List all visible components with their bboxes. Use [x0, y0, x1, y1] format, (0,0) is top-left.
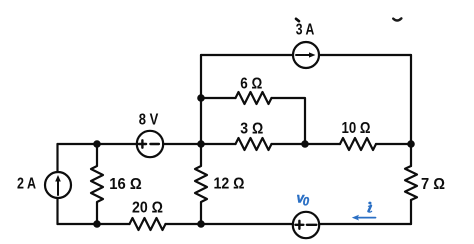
resistor 10 ohm: [340, 138, 376, 150]
voltage source v0 plus sign: [295, 221, 303, 229]
voltage source 8V minus sign: [150, 143, 159, 145]
wire left branch lower: [56, 198, 58, 224]
wire 6-ohm branch left lead: [201, 97, 236, 99]
svg-text:7 Ω: 7 Ω: [421, 176, 445, 193]
current source 3A circle: [293, 42, 319, 68]
wire bottom rail middle segment: [166, 223, 293, 225]
resistor 16 ohm (with leads): [91, 144, 103, 224]
svg-text:0: 0: [303, 197, 310, 209]
junction dot (305,144): [301, 140, 309, 148]
svg-text:6 Ω: 6 Ω: [240, 76, 262, 93]
resistor 6 ohm: [236, 92, 272, 104]
resistor 7 ohm: [405, 166, 417, 200]
wire mid horizontal left segment: [58, 143, 138, 145]
resistor 20 ohm: [130, 218, 166, 230]
wire right rail lower: [410, 200, 412, 224]
junction dot at 6-ohm tap (201,98): [197, 94, 205, 102]
wire middle vertical upper (node at x=201): [200, 55, 202, 144]
junction dot (97,224): [93, 220, 101, 228]
wire right rail upper: [410, 55, 412, 166]
current source 3A arrow: [296, 54, 310, 56]
resistor 12 ohm (with leads): [195, 144, 207, 224]
voltage source v0 minus sign: [307, 224, 317, 226]
svg-text:16 Ω: 16 Ω: [109, 176, 142, 193]
label i (blue): [368, 202, 371, 213]
junction dot (201,224): [197, 220, 205, 228]
wire mid horizontal 10ohm-to-right segment: [376, 143, 411, 145]
svg-text:2 A: 2 A: [17, 176, 36, 193]
stray grave accent mark above 3 A: [296, 19, 299, 21]
svg-text:3 A: 3 A: [296, 22, 315, 39]
stray breve mark top right: [393, 18, 401, 20]
wire 6-ohm branch right lead and drop: [272, 98, 306, 144]
svg-text:10 Ω: 10 Ω: [342, 120, 371, 137]
svg-text:12 Ω: 12 Ω: [214, 176, 245, 193]
svg-text:3 Ω: 3 Ω: [240, 121, 263, 138]
wire bottom rail 20-ohm left lead: [58, 223, 130, 225]
voltage source 8V plus sign: [139, 140, 146, 147]
wire top rail right segment: [319, 54, 411, 56]
svg-text:20 Ω: 20 Ω: [132, 200, 163, 217]
wire mid horizontal 8V-to-3ohm segment: [163, 143, 236, 145]
junction dot (201,144): [197, 140, 205, 148]
wire bottom rail right segment: [319, 223, 411, 225]
resistor 3 ohm: [236, 138, 272, 150]
junction dot (411,144): [407, 140, 415, 148]
junction dot (97,144): [93, 140, 101, 148]
voltage source 8V circle: [137, 131, 163, 157]
current source 2A arrow: [57, 181, 59, 195]
current source 2A circle: [45, 172, 71, 198]
current arrow i (blue): [352, 215, 376, 221]
wire top rail left segment: [201, 54, 293, 56]
wire left branch upper: [56, 144, 58, 172]
svg-text:8 V: 8 V: [139, 112, 159, 129]
wire mid horizontal 3ohm-to-10ohm segment: [272, 143, 341, 145]
voltage source v0 circle: [293, 212, 319, 238]
